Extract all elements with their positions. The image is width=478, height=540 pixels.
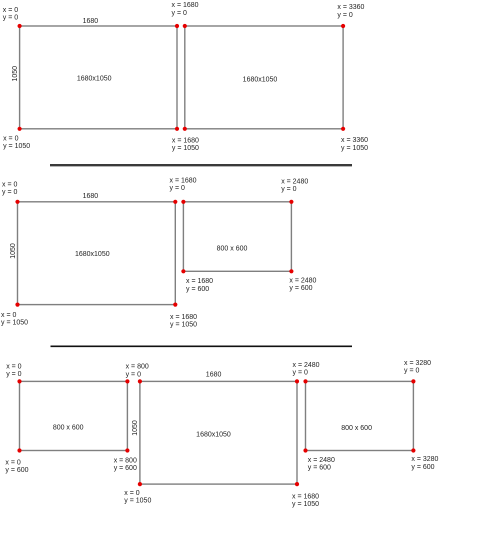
svg-text:x = 2480: x = 2480 <box>308 457 335 464</box>
corner dot A1 bottom-left <box>18 127 22 131</box>
svg-text:y = 0: y = 0 <box>2 189 17 196</box>
label x=0 y=0 (section 1 top-left) <box>3 7 18 22</box>
svg-text:y = 1050: y = 1050 <box>341 145 368 152</box>
svg-text:1050: 1050 <box>132 420 139 436</box>
corner dot C3 bottom-right <box>411 448 415 452</box>
svg-text:1680x1050: 1680x1050 <box>75 251 110 258</box>
corner dot B2 top-right <box>289 200 293 204</box>
svg-text:y = 0: y = 0 <box>3 15 18 22</box>
separator line 2 <box>51 345 353 347</box>
monitor outline C2 (1680x1050 middle, section 3) <box>140 381 297 484</box>
corner dot C1 bottom-left <box>17 448 21 452</box>
svg-text:x = 1680: x = 1680 <box>172 2 199 9</box>
svg-text:y = 600: y = 600 <box>289 285 312 292</box>
svg-text:x = 0: x = 0 <box>1 312 16 319</box>
monitor outline B2 (800x600, section 2) <box>183 202 291 271</box>
label x=1680 y=600 (below B2 bottom-left) <box>186 278 213 293</box>
monitor outline A2 (1680x1050, right, section 1) <box>185 26 343 129</box>
corner dot A1 top-right <box>175 24 179 28</box>
svg-text:1050: 1050 <box>12 66 19 82</box>
corner dot B2 top-left <box>181 200 185 204</box>
svg-text:y = 0: y = 0 <box>404 367 419 374</box>
svg-text:1680x1050: 1680x1050 <box>77 76 112 83</box>
svg-text:x = 800: x = 800 <box>126 364 149 371</box>
corner dot B2 bottom-right <box>289 269 293 273</box>
label x=800 y=0 (section 3, above C1/C2 junction) <box>126 364 149 379</box>
svg-text:800 x 600: 800 x 600 <box>341 425 372 432</box>
label x=1680 y=0 (section 2 top-middle) <box>170 178 197 193</box>
corner dot A2 top-right <box>341 24 345 28</box>
svg-text:y = 1050: y = 1050 <box>3 143 30 150</box>
corner dot B1 top-right <box>173 200 177 204</box>
label x=0 y=0 (section 2 top-left) <box>2 182 17 197</box>
label x=0 y=600 (section 3 below C1 bottom-left) <box>5 460 28 475</box>
monitor outline A1 (1680x1050, left, section 1) <box>20 26 177 129</box>
corner dot C2 top-left <box>138 379 142 383</box>
label x=3280 y=600 (section 3 below C3 bottom-right) <box>411 456 438 471</box>
corner dot B1 bottom-left <box>15 303 19 307</box>
svg-text:800 x 600: 800 x 600 <box>217 246 248 253</box>
label x=2480 y=0 (section 2 top-right) <box>281 178 308 193</box>
label x=2480 y=600 (section 3 below C3 bottom-left) <box>308 457 335 472</box>
monitor outline C1 (800x600 left, section 3) <box>20 381 128 450</box>
corner dot A1 top-left <box>18 24 22 28</box>
svg-text:x = 0: x = 0 <box>124 490 139 497</box>
svg-text:x = 2480: x = 2480 <box>289 277 316 284</box>
svg-text:x = 2480: x = 2480 <box>293 362 320 369</box>
label x=3360 y=0 (section 1 top-right) <box>337 4 364 19</box>
svg-text:1680: 1680 <box>83 18 99 25</box>
svg-text:y = 0: y = 0 <box>281 186 296 193</box>
svg-text:y = 1050: y = 1050 <box>172 145 199 152</box>
label x=1680 y=1050 (section 1 bottom-middle) <box>172 137 199 152</box>
svg-text:x = 0: x = 0 <box>3 136 18 143</box>
corner dot C1 top-right <box>125 379 129 383</box>
svg-text:x = 0: x = 0 <box>3 7 18 14</box>
svg-text:y = 0: y = 0 <box>337 12 352 19</box>
svg-text:x = 800: x = 800 <box>114 457 137 464</box>
svg-text:y = 600: y = 600 <box>411 464 434 471</box>
label x=0 y=0 (section 3 top-left) <box>6 364 21 379</box>
svg-text:y = 0: y = 0 <box>172 10 187 17</box>
svg-text:1680x1050: 1680x1050 <box>196 431 231 438</box>
corner dot B1 top-left <box>15 200 19 204</box>
corner dot C3 top-right <box>411 379 415 383</box>
label x=3360 y=1050 (section 1 bottom-right) <box>341 137 368 152</box>
label x=1680 y=1050 (section 2 bottom-middle) <box>170 314 197 329</box>
svg-text:x = 1680: x = 1680 <box>170 314 197 321</box>
svg-text:x = 0: x = 0 <box>2 182 17 189</box>
corner dot C3 bottom-left <box>303 448 307 452</box>
corner dot C2 top-right <box>295 379 299 383</box>
corner dot C3 top-left <box>303 379 307 383</box>
label x=0 y=1050 (section 3 below C2 bottom-left) <box>124 490 151 505</box>
svg-text:y = 1050: y = 1050 <box>292 501 319 508</box>
svg-text:x = 2480: x = 2480 <box>281 178 308 185</box>
svg-text:y = 1050: y = 1050 <box>1 320 28 327</box>
corner dot B1 bottom-right <box>173 303 177 307</box>
label x=800 y=600 (section 3 below C1 bottom-right) <box>114 457 137 472</box>
svg-text:x = 3280: x = 3280 <box>411 456 438 463</box>
label x=1680 y=1050 (section 3 below C2 bottom-right) <box>292 493 319 508</box>
label x=3280 y=0 (section 3 top-right) <box>404 360 431 375</box>
label x=0 y=1050 (section 1 bottom-left) <box>3 136 30 151</box>
corner dot A1 bottom-right <box>175 127 179 131</box>
svg-text:1680: 1680 <box>83 193 99 200</box>
svg-text:y = 600: y = 600 <box>5 467 28 474</box>
monitor outline B1 (1680x1050, section 2) <box>18 202 176 305</box>
svg-text:x = 1680: x = 1680 <box>172 137 199 144</box>
svg-text:y = 0: y = 0 <box>126 371 141 378</box>
svg-text:y = 600: y = 600 <box>114 465 137 472</box>
svg-text:x = 3360: x = 3360 <box>337 4 364 11</box>
corner dot C2 bottom-left <box>138 482 142 486</box>
corner dot A2 bottom-left <box>183 127 187 131</box>
svg-text:x = 3280: x = 3280 <box>404 360 431 367</box>
label x=1680 y=0 (section 1 top-middle) <box>172 2 199 17</box>
svg-text:800 x 600: 800 x 600 <box>53 425 84 432</box>
svg-text:y = 1050: y = 1050 <box>170 322 197 329</box>
label x=0 y=1050 (section 2 bottom-left) <box>1 312 28 327</box>
label x=2480 y=0 (section 3, above C2/C3 junction) <box>293 362 320 377</box>
svg-text:x = 1680: x = 1680 <box>292 493 319 500</box>
svg-text:y = 0: y = 0 <box>6 371 21 378</box>
svg-text:y = 0: y = 0 <box>293 370 308 377</box>
svg-text:x = 1680: x = 1680 <box>186 278 213 285</box>
svg-text:1050: 1050 <box>10 243 17 259</box>
corner dot C1 top-left <box>17 379 21 383</box>
svg-text:x = 1680: x = 1680 <box>170 178 197 185</box>
svg-text:y = 1050: y = 1050 <box>124 498 151 505</box>
separator line 1 <box>50 164 352 166</box>
svg-text:x = 0: x = 0 <box>5 460 20 467</box>
svg-text:y = 0: y = 0 <box>170 185 185 192</box>
svg-text:x = 0: x = 0 <box>6 364 21 371</box>
svg-text:x = 3360: x = 3360 <box>341 137 368 144</box>
corner dot C2 bottom-right <box>295 482 299 486</box>
svg-text:1680: 1680 <box>206 372 222 379</box>
corner dot A2 top-left <box>183 24 187 28</box>
monitor outline C3 (800x600 right, section 3) <box>306 381 414 450</box>
corner dot B2 bottom-left <box>181 269 185 273</box>
svg-text:1680x1050: 1680x1050 <box>243 76 278 83</box>
svg-text:y = 600: y = 600 <box>186 286 209 293</box>
corner dot C1 bottom-right <box>125 448 129 452</box>
corner dot A2 bottom-right <box>341 127 345 131</box>
svg-text:y = 600: y = 600 <box>308 465 331 472</box>
label x=2480 y=600 (below B2 bottom-right) <box>289 277 316 292</box>
